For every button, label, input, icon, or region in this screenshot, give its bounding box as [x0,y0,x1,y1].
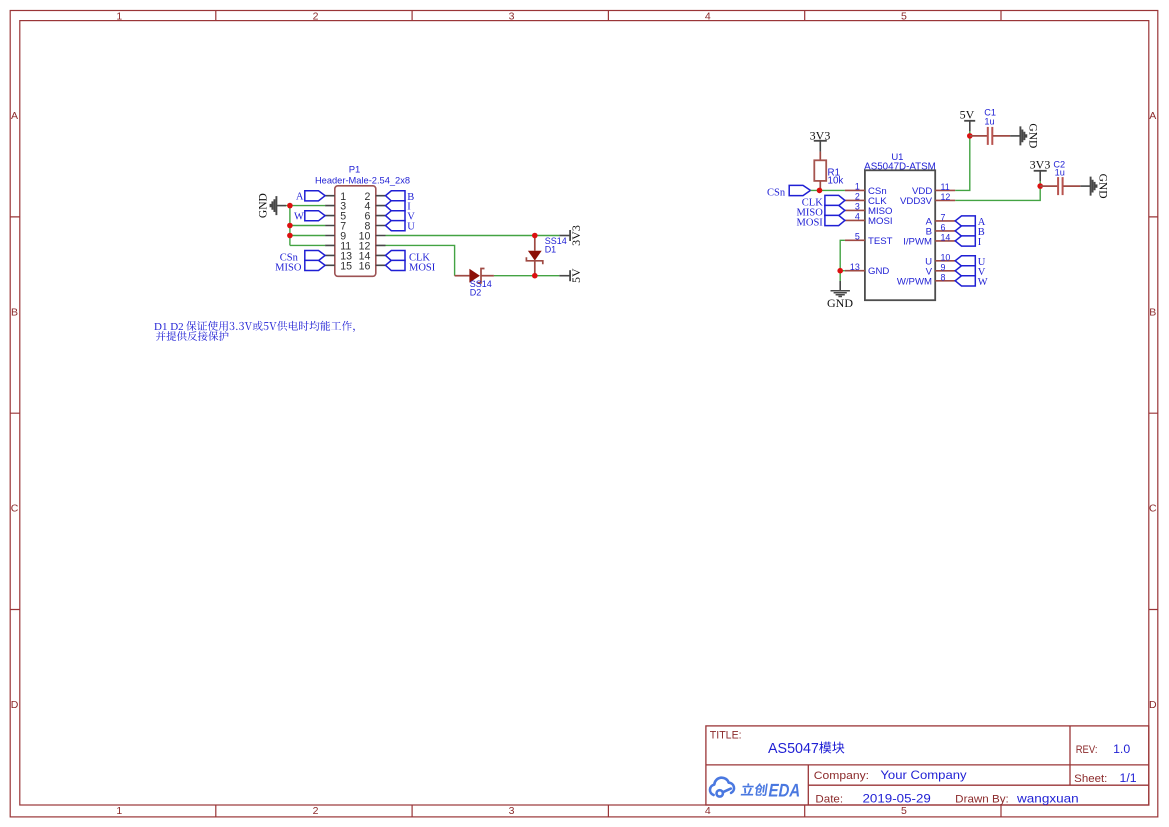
svg-text:1u: 1u [984,116,994,126]
net flag CSn [280,251,325,264]
svg-text:5: 5 [855,232,860,242]
svg-text:MOSI: MOSI [409,262,436,273]
svg-text:8: 8 [941,272,946,282]
svg-text:2: 2 [855,192,860,202]
svg-text:3: 3 [855,202,860,212]
title text [710,729,1137,805]
wire pin3 to GND [286,205,325,207]
junction [837,268,843,274]
wire to pin7 [290,225,325,227]
svg-text:11: 11 [941,182,950,192]
IC U1 AS5047D-ATSM [845,152,955,300]
svg-text:4: 4 [705,10,711,22]
wire CSn to U1 pin1 [811,189,845,191]
svg-text:1: 1 [116,805,122,817]
svg-text:REV:: REV: [1076,744,1098,756]
wire TEST to GND net [840,240,845,270]
svg-text:9: 9 [941,262,946,272]
svg-text:A: A [1149,110,1156,122]
svg-text:W/PWM: W/PWM [897,276,932,287]
svg-text:5V: 5V [569,268,583,283]
svg-text:14: 14 [941,232,951,242]
U1 pin numbers 11,12,7,6,14,10,9,8 [941,182,951,282]
svg-text:1u: 1u [1055,168,1065,178]
svg-text:CSn: CSn [767,187,786,198]
junction [967,133,973,139]
power flag 3V3 (C2) [1030,157,1051,181]
svg-text:3: 3 [509,805,515,817]
capacitor C2 [1040,159,1080,195]
net flag V [386,211,416,223]
svg-text:C: C [11,503,19,515]
wire junction to gnd [839,271,841,281]
svg-text:10k: 10k [828,175,844,186]
net flag I (U1) [955,236,982,248]
wire to pin11 [290,244,325,246]
U1 pin numbers 1,2,3,4,5,13 [850,182,860,272]
ground symbol (P1 pin3) [257,193,286,218]
svg-text:1: 1 [855,182,860,192]
svg-text:D: D [11,699,19,711]
svg-text:MISO: MISO [275,262,302,273]
resistor R1 [814,152,843,191]
net flag U [386,221,416,233]
junction [1037,183,1043,189]
svg-text:MOSI: MOSI [868,216,893,227]
net flag MOSI (P1) [386,260,436,273]
wire pin10 to 3V3 net [386,235,560,237]
svg-text:D1 D2: D1 D2 [154,321,184,333]
title block [706,726,1149,805]
net flag CSn (U1) [767,185,810,198]
svg-text:GND: GND [868,266,889,277]
ground symbol (C1) [1010,123,1038,148]
power flag 5V (right of P1) [559,268,583,283]
ground symbol (C2) [1080,174,1108,199]
logo EasyEDA [710,778,801,801]
diode D1 [526,236,566,276]
svg-text:W: W [978,277,988,288]
svg-text:5: 5 [901,805,907,817]
svg-text:Date:: Date: [815,793,843,805]
svg-text:B: B [1149,306,1156,318]
svg-text:3V3: 3V3 [1030,157,1051,171]
power flag 5V (C1) [960,107,976,131]
svg-text:Company:: Company: [814,770,869,782]
wire 5V to junction [969,131,971,136]
junction [532,273,538,279]
svg-text:Drawn By:: Drawn By: [955,793,1009,805]
wire VDD to C1 [955,136,970,191]
power flag 3V3 (above R1) [810,128,831,151]
svg-text:C: C [1149,503,1157,515]
svg-text:5V: 5V [960,107,975,121]
svg-text:13: 13 [850,262,860,272]
svg-text:MOSI: MOSI [797,217,824,228]
U1 pin names right [897,186,933,287]
svg-text:B: B [11,306,18,318]
svg-text:3V3: 3V3 [569,225,583,246]
svg-text:1/1: 1/1 [1120,771,1137,785]
connector P1 [315,164,410,276]
svg-text:U: U [407,222,415,233]
svg-text:W: W [294,212,304,223]
svg-text:Your Company: Your Company [880,768,967,782]
svg-text:GND: GND [1097,174,1109,199]
ground symbol (U1 pin13) [827,281,853,310]
svg-text:4: 4 [705,805,711,817]
P1 pin numbers 1,3,5,7,9,11,13,15 [340,191,352,273]
U1 pin stubs [845,190,955,280]
svg-text:D1: D1 [545,244,557,254]
svg-text:Header-Male-2.54_2x8: Header-Male-2.54_2x8 [315,175,410,185]
capacitor C1 [970,107,1010,145]
net flag CLK (U1) [802,195,845,208]
wire pin13 [840,270,845,272]
junction [287,203,293,209]
net flag V (U1) [955,266,986,278]
net flag A [296,191,325,203]
P1 pin numbers 2,4,6,8,10,12,14,16 [359,191,371,273]
svg-text:I: I [978,237,982,248]
net flag W [294,211,325,223]
svg-text:GND: GND [1027,123,1039,148]
svg-text:6: 6 [941,222,946,232]
svg-text:D2: D2 [470,287,482,297]
net flag U (U1) [955,256,986,268]
wire 3V3 to junction [1039,181,1041,186]
U1 pin names left [868,186,893,277]
net flag I [386,201,412,213]
svg-text:2: 2 [313,805,319,817]
net flag MISO [275,260,325,273]
svg-text:16: 16 [359,260,371,272]
svg-text:GND: GND [257,193,269,218]
svg-text:10: 10 [941,252,951,262]
svg-text:VDD3V: VDD3V [900,196,933,207]
wire gnd vertical bus [289,206,291,246]
svg-text:5: 5 [901,10,907,22]
svg-text:12: 12 [941,192,951,202]
svg-text:4: 4 [855,212,860,222]
junction [287,223,293,229]
svg-text:1.0: 1.0 [1113,742,1130,756]
svg-text:wangxuan: wangxuan [1016,791,1079,805]
svg-text:3: 3 [509,10,515,22]
power flag 3V3 (right of P1) [559,225,583,246]
svg-text:1: 1 [116,10,122,22]
svg-text:7: 7 [941,212,946,222]
P1 pins 1-16 stubs [325,196,385,266]
diode D2 [455,269,494,298]
junction [817,188,823,194]
net flag CLK (P1) [386,251,431,264]
svg-text:15: 15 [340,260,352,272]
svg-text:GND: GND [827,296,853,310]
net flag A (U1) [955,216,986,228]
svg-text:A: A [11,110,18,122]
svg-text:2019-05-29: 2019-05-29 [863,791,931,805]
net flag B (U1) [955,226,985,238]
svg-text:TEST: TEST [868,236,893,247]
note text [154,321,355,341]
net flag MOSI (U1) [797,215,845,228]
net flag W (U1) [955,276,988,288]
junction [287,233,293,239]
svg-text:I/PWM: I/PWM [903,236,932,247]
svg-text:AS5047: AS5047 [768,741,819,757]
wire pin12 down to D2 [386,245,455,275]
wire to pin9 [290,235,325,237]
wire VDD3V to C2 [955,186,1040,200]
svg-text:Sheet:: Sheet: [1074,773,1107,785]
svg-text:TITLE:: TITLE: [710,729,742,741]
wire D2 to junction [494,275,559,277]
svg-text:D: D [1149,699,1157,711]
svg-text:EDA: EDA [768,780,800,801]
svg-text:2: 2 [313,10,319,22]
junction [532,233,538,239]
svg-text:P1: P1 [349,164,361,175]
svg-text:A: A [296,192,304,203]
net flag B [386,191,415,203]
net flag MISO (U1) [797,205,845,218]
